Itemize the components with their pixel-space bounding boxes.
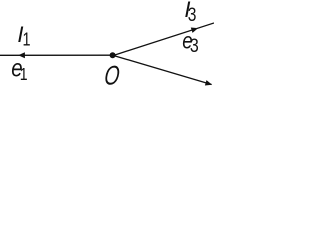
svg-text:1: 1 xyxy=(23,29,31,50)
wire lower-right ray xyxy=(113,55,212,84)
arrowhead I3 pointing up-right xyxy=(191,25,199,32)
arrowhead I1 pointing left xyxy=(18,52,25,58)
arrowhead lower-right pointing down-right xyxy=(205,80,213,87)
wire upper-right ray toward I3 xyxy=(113,23,214,56)
wire I1 horizontal into node O xyxy=(0,54,113,56)
svg-text:O: O xyxy=(103,60,121,90)
svg-text:1: 1 xyxy=(20,64,28,84)
svg-text:3: 3 xyxy=(190,35,199,57)
node O junction dot xyxy=(110,52,116,58)
svg-text:3: 3 xyxy=(188,4,197,26)
